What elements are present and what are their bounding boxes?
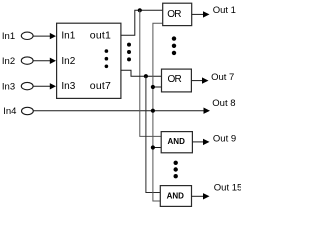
or-gate OR1: [163, 3, 192, 25]
svg-text:In2: In2: [61, 56, 75, 67]
wire bus B: out1 down to AND1 input 1: [140, 10, 161, 136]
input terminal In2: [21, 57, 33, 64]
svg-text:In2: In2: [2, 56, 15, 67]
svg-text:In1: In1: [61, 31, 75, 42]
svg-text:out7: out7: [90, 80, 111, 92]
wire out7 from decoder to OR2 input 1: [121, 70, 162, 76]
wire AND2 output: [192, 195, 205, 197]
junction node C on out7 wire: [144, 74, 148, 78]
junction node B on out1 wire: [138, 8, 142, 12]
svg-text:In1: In1: [2, 31, 15, 42]
arrowhead Out 8: [204, 108, 211, 114]
wire In2 to decoder: [33, 60, 51, 62]
or-gate OR2: [162, 69, 192, 92]
wire OR1 output: [192, 13, 204, 15]
arrowhead In2: [50, 58, 56, 64]
ellipsis dots inside decoder: [105, 49, 109, 68]
ellipsis dots between OR1 and OR2: [172, 36, 176, 55]
svg-text:In4: In4: [3, 106, 16, 117]
wire OR2 output: [191, 80, 203, 82]
decoder block U1: [57, 23, 121, 98]
arrowhead Out 15: [203, 193, 210, 199]
svg-text:Out 15: Out 15: [214, 182, 241, 193]
svg-text:AND: AND: [167, 192, 185, 201]
svg-text:AND: AND: [168, 137, 186, 146]
ellipsis dots between AND1 and AND2: [174, 161, 178, 179]
junction bus D at In4 net: [151, 109, 155, 113]
wire AND1 output: [192, 141, 204, 143]
wire bus C: out7 down to AND2 input 1: [146, 76, 160, 192]
junction bus D at AND1 input 2: [151, 145, 155, 149]
svg-text:Out 9: Out 9: [213, 134, 236, 145]
svg-text:In3: In3: [61, 81, 75, 92]
arrowhead Out 1: [203, 11, 210, 17]
svg-text:Out 7: Out 7: [211, 72, 234, 83]
wire In1 to decoder: [33, 35, 51, 37]
wire bus D: In4 net to OR1 input 2 and down to AND2 input 2: [153, 23, 163, 201]
svg-text:out1: out1: [90, 30, 111, 42]
wire In3 to decoder: [33, 85, 51, 87]
svg-text:In3: In3: [2, 81, 15, 92]
wire out1 from decoder to OR1 input 1: [121, 10, 163, 35]
input terminal In1: [21, 32, 33, 39]
and-gate AND2: [160, 186, 191, 207]
wire bus D to AND1 input 2: [153, 147, 161, 149]
wire bus D to OR2 input 2: [153, 86, 162, 88]
input terminal In4: [22, 107, 34, 114]
arrowhead Out 9: [203, 139, 210, 145]
arrowhead In3: [50, 83, 56, 89]
svg-text:Out 1: Out 1: [213, 5, 236, 16]
svg-text:Out 8: Out 8: [212, 98, 235, 109]
input terminal In3: [21, 82, 33, 89]
arrowhead In1: [50, 33, 56, 39]
junction bus D at OR2 input 2: [151, 85, 155, 89]
arrowhead Out 7: [202, 77, 209, 83]
and-gate AND1: [161, 132, 192, 153]
ellipsis dots right of decoder: [127, 43, 131, 62]
svg-text:OR: OR: [167, 74, 181, 85]
wire In4 to Out 8 (net N4): [34, 110, 205, 112]
svg-text:OR: OR: [167, 9, 181, 20]
